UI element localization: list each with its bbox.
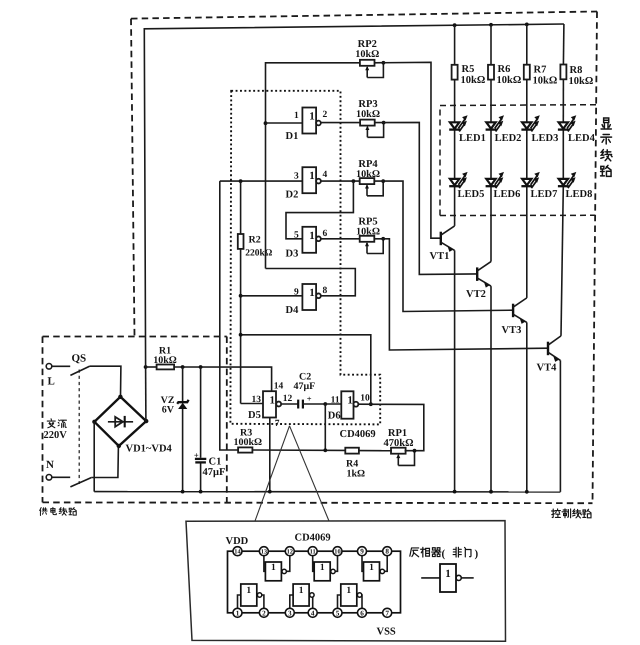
LED7 [521,172,539,188]
svg-text:8: 8 [385,548,389,556]
svg-text:VT2: VT2 [466,289,486,300]
svg-text:10kΩ: 10kΩ [356,169,380,180]
svg-text:10kΩ: 10kΩ [461,75,486,86]
svg-text:470kΩ: 470kΩ [384,438,414,449]
wire RP3 to VT2 base [375,122,478,274]
svg-text:1: 1 [445,568,451,580]
svg-text:2: 2 [323,110,328,120]
svg-text:LED5: LED5 [458,189,485,200]
svg-text:LED4: LED4 [568,133,596,144]
wire LED1 to LED5 [454,130,456,179]
svg-text:VT1: VT1 [430,251,450,262]
svg-text:6: 6 [360,609,364,617]
node junction D1 input [264,121,268,125]
svg-text:1: 1 [246,586,251,596]
inverter U3top inside CD4069 [364,562,385,581]
diode symbol inside bridge [108,416,133,428]
power-supply dashed box top edge [43,336,227,338]
wire VDD rail up left side and across top [144,24,564,367]
bridge corner junction bottom [117,444,121,448]
node junction VT2 emitter on ground rail [489,490,493,494]
wire pin11 to inverter input (top row 2) [313,553,315,571]
wire LED8 to VT4 collector [561,187,563,336]
svg-text:VT3: VT3 [502,325,522,336]
transistor VT2 [477,262,491,492]
potentiometer RP1 [391,448,416,466]
svg-text:VT4: VT4 [537,363,558,374]
svg-text:D3: D3 [286,249,299,260]
svg-text:6: 6 [323,229,328,239]
svg-text:5: 5 [294,231,299,241]
inverter gate D4 [302,284,320,310]
resistor R7 body [524,65,530,80]
resistor R2 body [238,181,244,403]
svg-text:1kΩ: 1kΩ [347,469,366,480]
svg-text:100kΩ: 100kΩ [234,437,263,448]
CD4069 pin 9 circle [358,547,367,556]
node junction C1 bottom on ground rail [199,490,203,494]
label kongzhi-xianlu (control circuit) [552,509,591,518]
svg-text:10kΩ: 10kΩ [356,226,380,237]
switch QS lower blade [70,478,91,487]
wire pin13 to inverter input (top row 1) [264,553,266,571]
wire D5 pin7 to ground rail [269,418,271,492]
wire LED4 to LED8 [562,130,564,179]
inverter U2bot inside CD4069 [293,584,314,606]
wire D1 input [266,122,303,124]
wire D2 output to RP4 [321,180,360,182]
svg-text:D2: D2 [286,189,299,200]
node junction R4 left / D6 input column [323,448,327,452]
node junction D4 input [239,294,243,298]
inverter U1top inside CD4069 [265,562,286,581]
inverter gate D5 [263,391,281,417]
CD4069 pin 3 circle [285,608,294,617]
wire pin3 to inverter input (bottom row 2) [290,595,293,611]
svg-text:R8: R8 [570,65,583,76]
potentiometer RP3 [360,120,385,138]
node junction D6 output [369,402,373,406]
svg-text:9: 9 [294,288,299,298]
wire LED6 to VT2 collector [490,187,492,262]
wire switch to bridge top [90,366,121,396]
svg-text:4: 4 [311,609,315,617]
inverter gate D3 [302,227,320,253]
wire inverter output to pin10 (top row 2) [334,553,338,571]
wire R4 to RP1 [359,450,392,452]
node junction D6 input [323,402,327,406]
svg-text:+: + [194,450,199,460]
svg-text:VDD: VDD [226,536,249,547]
callout line right to CD4069 pinout box [290,426,330,521]
power-supply dashed box right edge [226,337,228,503]
CD4069 pin 12 circle [285,547,294,556]
wire pin5 to inverter input (bottom row 3) [338,595,341,611]
CD4069 pin 7 circle [383,608,392,617]
resistor R5 body [452,65,458,80]
outer dashed border left edge [131,19,135,337]
svg-text:+: + [307,394,312,404]
label feimen (NOT gate) text [453,547,471,557]
wire RP4 to VT3 base [374,181,513,311]
switch QS mechanical linkage dashed [78,370,80,485]
svg-text:D6: D6 [328,411,341,422]
svg-text:1: 1 [309,287,315,299]
wire RP5 to VT4 base [374,239,548,350]
node junction C1 top [199,365,203,369]
svg-text:10: 10 [360,394,370,404]
wire R7 to LED3 [526,80,528,123]
label fanxiangqi (inverter) text [410,547,441,557]
svg-text:7: 7 [275,419,280,429]
svg-text:47μF: 47μF [294,381,316,392]
node junction D2 output [352,179,356,183]
svg-text:1: 1 [236,609,240,617]
CD4069 pin 10 circle [333,547,342,556]
inverter U2top inside CD4069 [314,562,335,581]
outer dashed border bottom edge (shared with power box bottom) [43,501,593,504]
wire D6 output to RP1 [358,404,423,451]
wire D4 input [241,295,303,297]
display circuit dashed box (LED box) [440,105,596,216]
svg-text:1: 1 [309,230,315,242]
svg-text:7: 7 [385,609,389,617]
svg-text:CD4069: CD4069 [295,533,331,544]
wire switch to bridge bottom [91,446,118,477]
svg-text:5: 5 [336,609,340,617]
inverter U1bot inside CD4069 [241,584,262,606]
wire D4 output feedback to D1 input [266,269,356,296]
bridge corner junction left [92,420,96,424]
svg-text:3: 3 [288,609,292,617]
node junction VZ bottom on ground rail [181,490,185,494]
node junction rail-R6 [489,23,493,27]
bridge corner junction top [118,395,122,399]
svg-text:L: L [48,376,55,388]
outer dashed border right edge [593,12,598,504]
wire R1 to D5 pin14 feed [174,367,272,391]
CD4069 dotted boundary box around D1-D6 [230,91,380,425]
svg-text:10kΩ: 10kΩ [497,75,522,86]
wire D3 output to RP5 [321,238,360,240]
wire LED5 to VT1 collector [454,187,456,226]
svg-text:R2: R2 [249,235,261,246]
svg-text:1: 1 [294,111,299,121]
svg-text:4: 4 [323,170,328,180]
wire inverter output to pin2 (bottom row 1) [260,595,264,611]
svg-text:QS: QS [72,353,87,365]
svg-text:12: 12 [283,394,293,404]
LED1 [449,115,467,131]
svg-text:1: 1 [346,586,351,596]
wire R8 to LED4 [562,79,564,122]
svg-text:LED8: LED8 [566,189,593,200]
svg-text:1: 1 [271,563,276,573]
label xianshi-xianlu (display circuit) vertical [601,118,613,176]
wire R2 node to D5 pin13 [241,403,263,405]
wire inverter output to pin4 (bottom row 2) [309,595,313,611]
svg-text:3: 3 [294,172,299,182]
svg-text:N: N [46,459,54,471]
svg-text:10kΩ: 10kΩ [533,76,558,87]
resistor R1 body [157,365,175,370]
wire pin9 to inverter input (top row 3) [362,553,364,571]
CD4069 pin 14 circle [233,547,242,556]
svg-text:D4: D4 [286,305,300,316]
LED3 [521,115,539,131]
node junction VT3 emitter on ground rail [525,490,529,494]
label gongdian-xianlu (power supply circuit) [40,507,77,515]
wire D1 output to RP3 [321,122,360,124]
wire RP2 left lead / node D4out-D1in column [266,63,361,269]
svg-text:): ) [475,548,479,560]
wire D6 input [325,403,341,405]
svg-text:1: 1 [347,395,353,407]
zener diode VZ [177,367,188,492]
svg-text:1: 1 [309,111,315,123]
CD4069 pinout figure outer box [186,521,506,642]
wire L to switch contact [52,365,70,367]
potentiometer RP2 [360,60,385,78]
inverter gate D6 [341,391,358,418]
svg-text:R7: R7 [534,65,547,76]
inverter gate D2 [302,167,320,193]
svg-text:11: 11 [310,549,316,556]
node VDD junction at R1 left [144,365,148,369]
wire rail to R6 [490,25,492,65]
CD4069 pin 8 circle [383,547,392,556]
switch QS upper blade [70,366,89,375]
svg-text:10kΩ: 10kΩ [355,49,379,60]
node junction pin7 on ground rail [268,490,272,494]
CD4069 pin 1 circle [233,608,242,617]
CD4069 pin 6 circle [358,608,367,617]
svg-text:14: 14 [234,549,241,556]
transistor VT3 [513,298,527,492]
svg-text:8: 8 [323,286,328,296]
node junction VZ top [181,365,185,369]
svg-text:LED2: LED2 [495,133,522,144]
svg-text:10kΩ: 10kΩ [153,355,177,366]
transistor VT4 [548,336,561,492]
potentiometer RP5 [360,236,385,254]
svg-text:12: 12 [287,549,293,556]
svg-text:220kΩ: 220kΩ [245,249,273,259]
svg-text:2: 2 [262,609,266,617]
node junction rail-R5 [453,23,457,27]
wire D6 output up and left to D5 input node [241,335,371,404]
node L terminal circle [46,364,52,370]
svg-text:LED7: LED7 [531,189,558,200]
legend inverter symbol (NOT gate) [421,564,474,592]
inverter gate D1 [302,108,320,134]
wire bridge left corner down to ground rail [93,422,95,492]
wire LED7 to VT3 collector [526,187,528,298]
resistor R8 body [560,65,566,80]
svg-text:R6: R6 [498,64,511,75]
svg-text:D1: D1 [286,131,299,142]
svg-text:(: ( [442,548,446,560]
svg-text:1: 1 [309,170,315,182]
wire rail to R1 [146,366,157,368]
ground rail (bottom common rail) [94,491,560,493]
capacitor C1 electrolytic [195,367,206,492]
wire LED2 to LED6 [490,130,492,179]
svg-text:13: 13 [252,395,262,405]
node junction oscillator feedback on R2 column [239,333,243,337]
transistor VT1 [441,226,455,492]
svg-text:VD1~VD4: VD1~VD4 [126,444,173,455]
wire RP2 to VT1 base [375,62,441,238]
node junction R2 top [239,179,243,183]
resistor R6 body [488,65,494,80]
wire bridge right corner up to VDD node [145,367,147,421]
resistor R4 body [345,448,359,454]
wire inverter output to pin12 (top row 1) [286,553,290,571]
wire rail to R5 [454,25,456,65]
wire D2 output to D3 input (S path) [286,181,353,239]
power-supply dashed box left edge [42,337,44,503]
svg-text:VSS: VSS [377,627,396,638]
svg-text:1: 1 [299,586,304,596]
wire N to switch contact [52,476,70,478]
svg-text:LED3: LED3 [532,133,559,144]
wire R3 to R4 rail [252,449,345,451]
wire R6 to LED2 [490,80,492,123]
wire node D2in down to R3 [220,181,238,450]
wire rail to R7 [526,24,528,64]
svg-text:11: 11 [331,396,340,406]
svg-text:6V: 6V [162,405,175,416]
CD4069 pin 13 circle [259,547,268,556]
display circuit dashed box bottom edge [440,214,595,216]
LED4 [558,115,576,131]
callout line left to CD4069 pinout box [255,426,290,521]
wire D2 input from left node [220,180,303,182]
capacitor C2 [282,400,326,409]
CD4069 pin 5 circle [333,608,342,617]
node junction rail-R7 [525,23,529,27]
svg-text:13: 13 [261,549,267,556]
svg-text:1: 1 [270,395,276,407]
svg-text:10: 10 [334,549,340,556]
svg-text:LED1: LED1 [459,133,486,144]
label jiaoliu (AC) text [47,419,66,428]
CD4069 pin 2 circle [259,608,268,617]
svg-text:D5: D5 [248,410,261,421]
svg-text:CD4069: CD4069 [340,429,376,440]
svg-text:10kΩ: 10kΩ [356,109,380,120]
svg-text:10kΩ: 10kΩ [569,76,594,87]
wire LED3 to LED7 [526,130,528,179]
svg-text:C1: C1 [209,457,222,468]
node junction VT1 emitter on ground rail [453,490,457,494]
wire inverter output to pin6 (bottom row 3) [359,595,363,611]
wire R5 to LED1 [454,80,456,123]
potentiometer RP4 [360,178,385,196]
LED6 [486,172,504,188]
bridge rectifier VD1~VD4 diamond [94,397,146,446]
LED5 [449,172,467,188]
svg-text:R5: R5 [462,64,475,75]
node N terminal circle [46,475,52,481]
svg-text:1: 1 [369,563,374,573]
svg-text:14: 14 [274,382,284,392]
svg-text:9: 9 [360,548,364,556]
wire pin1 to inverter input (bottom row 1) [238,595,241,611]
resistor R3 body [238,447,252,452]
wire inverter output to pin8 (top row 3) [384,553,388,571]
CD4069 chip body outline [228,551,401,613]
outer dashed border: control circuit boundary top edge [131,12,597,19]
svg-text:220V: 220V [44,430,68,441]
wire rail corner down to R8 [562,24,565,65]
svg-text:47μF: 47μF [203,467,226,478]
inverter U3bot inside CD4069 [341,584,362,606]
svg-text:1: 1 [320,563,325,573]
CD4069 pin 11 circle [308,547,317,556]
LED8 [558,172,576,188]
LED2 [486,115,504,131]
CD4069 pin 4 circle [308,608,317,617]
bridge corner junction right [144,419,148,423]
wire D6 input node down to R3-R4 rail [324,404,326,450]
svg-text:LED6: LED6 [494,189,521,200]
